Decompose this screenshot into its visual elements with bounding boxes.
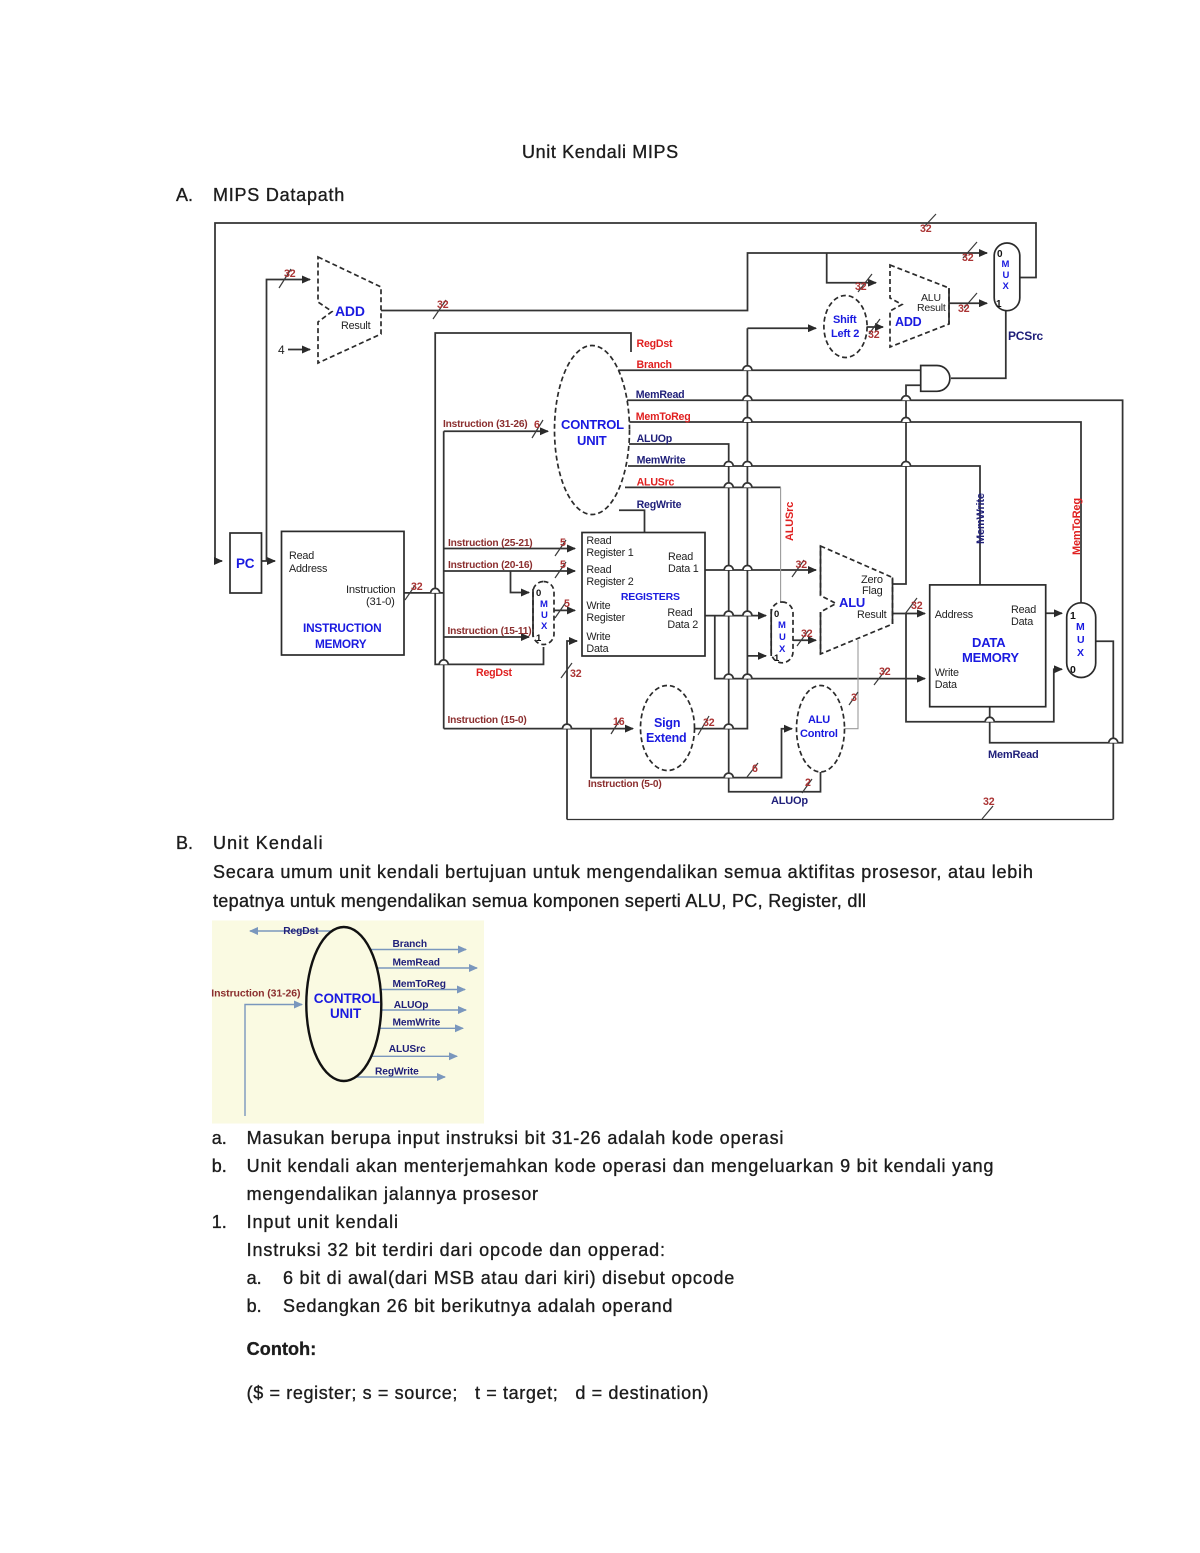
wire: instruction bus vertical	[443, 431, 445, 728]
svg-text:32: 32	[962, 252, 974, 264]
svg-text:4: 4	[278, 343, 285, 357]
figure background	[212, 921, 484, 1124]
final mux M4 (MemToReg)	[1067, 603, 1096, 678]
control unit ellipse	[555, 346, 630, 515]
wire: instruction 20-16 to read register 2	[444, 570, 575, 572]
wire: ALUSrc select down to mux	[780, 487, 782, 602]
svg-text:Result: Result	[341, 320, 371, 332]
svg-text:Instruction (15-11): Instruction (15-11)	[448, 626, 532, 637]
wire: RegDst control to write-register mux select	[435, 333, 631, 664]
wire: RegDst output left	[250, 930, 332, 932]
svg-text:0: 0	[1070, 664, 1076, 676]
svg-text:RegWrite: RegWrite	[637, 499, 682, 511]
svg-text:Instruction (5-0): Instruction (5-0)	[588, 779, 662, 790]
svg-text:Register 1: Register 1	[586, 547, 633, 559]
svg-text:ADD: ADD	[895, 315, 922, 329]
wire: RegWrite output	[356, 1076, 445, 1078]
wire: sign extend output up to shift-left-2	[694, 328, 747, 728]
wire: instruction 15-11 to mux input 1	[444, 636, 529, 638]
svg-text:ALUOp: ALUOp	[394, 1000, 429, 1011]
svg-text:5: 5	[564, 598, 570, 610]
MAIN DATAPATH SVG	[0, 0, 1200, 860]
svg-text:5: 5	[560, 559, 566, 571]
svg-text:X: X	[779, 644, 786, 655]
wire: MemWrite control to data memory top	[628, 466, 980, 585]
wire: instruction 5-0 to ALU control	[591, 729, 792, 778]
wire: instruction 20-16 branch to mux input 0	[511, 571, 530, 593]
svg-text:Read: Read	[586, 564, 611, 576]
svg-text:MemToReg: MemToReg	[393, 979, 446, 990]
wire: ALU result bypass to final mux input 0	[906, 614, 1062, 722]
ADD2 solid right edge	[948, 288, 950, 324]
svg-text:Register: Register	[586, 612, 625, 624]
svg-text:CONTROL: CONTROL	[314, 991, 380, 1006]
svg-text:Instruction (31-26): Instruction (31-26)	[211, 988, 300, 1000]
svg-text:6: 6	[534, 419, 540, 431]
svg-text:ALUOp: ALUOp	[637, 433, 673, 445]
svg-text:Address: Address	[289, 563, 328, 575]
svg-text:6: 6	[752, 763, 758, 775]
wire: instruction 31-26 input	[245, 1005, 302, 1117]
wire: ALUSrc control across	[625, 486, 781, 488]
svg-text:U: U	[779, 632, 786, 643]
svg-text:MemRead: MemRead	[636, 389, 685, 401]
heading A	[176, 185, 193, 206]
svg-text:Data 2: Data 2	[667, 619, 698, 631]
main ALU	[821, 546, 893, 654]
svg-text:Write: Write	[935, 667, 959, 679]
svg-text:DATA: DATA	[972, 635, 1006, 650]
svg-text:1: 1	[996, 299, 1002, 310]
svg-text:5: 5	[560, 537, 566, 549]
svg-text:Control: Control	[800, 728, 838, 740]
svg-text:Instruction: Instruction	[346, 584, 395, 596]
svg-text:RegDst: RegDst	[637, 338, 674, 350]
svg-text:32: 32	[868, 329, 880, 341]
svg-text:U: U	[1077, 634, 1084, 646]
svg-text:X: X	[541, 621, 548, 632]
wire: Branch output	[370, 949, 466, 951]
svg-text:32: 32	[411, 581, 423, 593]
svg-text:MemWrite: MemWrite	[975, 493, 987, 544]
wire: Zero flag to AND gate	[893, 385, 921, 584]
svg-text:MemToReg: MemToReg	[1071, 498, 1083, 555]
svg-text:Left 2: Left 2	[831, 328, 859, 340]
wire: final mux output feedback to registers write data	[1096, 641, 1114, 819]
write-register mux M2	[533, 582, 554, 645]
svg-text:Sign: Sign	[654, 716, 680, 730]
wire: constant 4 into ADD1	[288, 349, 310, 351]
svg-text:UNIT: UNIT	[577, 433, 607, 448]
svg-text:ALUSrc: ALUSrc	[784, 502, 796, 541]
slashes on buses	[279, 214, 993, 819]
svg-text:MemRead: MemRead	[393, 958, 440, 969]
svg-text:Branch: Branch	[393, 939, 428, 950]
wire: PC feedback from top mux along top frame into PC	[215, 223, 1036, 561]
mux solid left edges	[533, 589, 771, 656]
wire: MemWrite output	[379, 1027, 463, 1029]
svg-text:REGISTERS: REGISTERS	[621, 591, 680, 603]
svg-text:32: 32	[796, 559, 808, 571]
svg-text:Instruction (31-26): Instruction (31-26)	[443, 419, 528, 430]
wire: MemToReg control to final mux select	[629, 422, 1081, 603]
ALU solid edges	[821, 546, 893, 654]
svg-text:Write: Write	[586, 600, 610, 612]
svg-text:RegDst: RegDst	[476, 667, 513, 679]
wire: shift-left-2 output to ADD2	[867, 326, 883, 328]
svg-text:32: 32	[284, 268, 296, 280]
wire: PC to instruction memory	[262, 560, 276, 562]
wire: data memory read data to final mux input 1	[1046, 612, 1062, 614]
registers file	[582, 533, 705, 657]
wire: ALUOp control to ALU control unit	[629, 444, 821, 792]
crossing hops	[431, 366, 1118, 778]
svg-text:PCSrc: PCSrc	[1008, 329, 1044, 343]
wire: sign extend branch to ALUSrc mux input 1	[747, 655, 766, 657]
wire: Branch control to AND gate	[618, 369, 921, 371]
svg-text:ALU: ALU	[839, 595, 865, 610]
svg-text:Data: Data	[935, 679, 957, 691]
title	[522, 142, 679, 163]
adder ADD1 (PC+4)	[318, 257, 381, 363]
svg-text:X: X	[1003, 281, 1010, 292]
sign extend unit	[641, 686, 695, 771]
svg-text:UNIT: UNIT	[330, 1006, 362, 1021]
wire: ALUSrc mux output to ALU	[793, 639, 816, 641]
svg-text:M: M	[540, 599, 548, 610]
svg-text:32: 32	[958, 303, 970, 315]
wire: read data 1 to ALU	[705, 569, 816, 571]
svg-text:Instruction (25-21): Instruction (25-21)	[448, 538, 533, 549]
svg-text:Read: Read	[289, 550, 314, 562]
svg-text:MemWrite: MemWrite	[637, 455, 686, 467]
heading B	[176, 833, 193, 854]
svg-text:16: 16	[613, 716, 625, 728]
svg-text:Data: Data	[1011, 616, 1033, 628]
adder ADD2 (branch target)	[890, 265, 949, 347]
svg-text:MemWrite: MemWrite	[393, 1018, 441, 1029]
AND gate (branch and zero)	[921, 366, 950, 392]
svg-text:PC: PC	[236, 556, 255, 571]
PC register	[230, 533, 262, 593]
SMALL CONTROL UNIT FIGURE SVG	[0, 905, 520, 1135]
svg-text:2: 2	[805, 777, 811, 789]
svg-text:M: M	[778, 620, 786, 631]
svg-text:X: X	[1077, 647, 1084, 659]
svg-text:RegWrite: RegWrite	[375, 1067, 419, 1078]
svg-text:32: 32	[879, 666, 891, 678]
svg-text:Data 1: Data 1	[668, 563, 699, 575]
ALU control unit	[797, 686, 845, 772]
svg-text:Read: Read	[1011, 604, 1036, 616]
wire: MemRead output	[377, 967, 477, 969]
svg-text:32: 32	[911, 600, 923, 612]
svg-text:Data: Data	[586, 643, 608, 655]
wire: MemToReg output	[381, 989, 465, 991]
svg-text:U: U	[1003, 270, 1010, 281]
svg-text:Write: Write	[586, 631, 610, 643]
svg-text:Result: Result	[917, 302, 946, 314]
wire: PCSrc select from AND gate to top mux	[951, 311, 1006, 379]
svg-text:32: 32	[920, 223, 932, 235]
svg-text:Read: Read	[668, 551, 693, 563]
wire: ADD2 result to top mux input 1	[949, 302, 987, 304]
svg-text:ALUSrc: ALUSrc	[637, 477, 675, 489]
wire: ALU control output to ALU	[845, 640, 858, 729]
svg-text:M: M	[1002, 259, 1010, 270]
svg-text:M: M	[1076, 621, 1085, 633]
svg-text:32: 32	[983, 796, 995, 808]
wire: PC up to ADD1 input	[267, 280, 311, 562]
svg-text:32: 32	[437, 299, 449, 311]
wire: instruction memory output	[404, 592, 444, 594]
svg-text:32: 32	[855, 281, 867, 293]
svg-text:U: U	[541, 610, 548, 621]
svg-text:ALUSrc: ALUSrc	[389, 1044, 426, 1055]
svg-text:CONTROL: CONTROL	[561, 417, 624, 432]
svg-text:Read: Read	[586, 535, 611, 547]
wire: instruction 31-26 into control unit	[444, 430, 548, 432]
svg-text:(31-0): (31-0)	[366, 596, 395, 608]
wire: RegWrite control to registers top	[619, 510, 645, 532]
svg-text:MemToReg: MemToReg	[636, 411, 691, 423]
svg-text:3: 3	[851, 692, 857, 704]
wire: read data 2 branch to data memory write data	[715, 616, 925, 679]
top mux M1 (PCSrc)	[994, 243, 1020, 311]
wire: instruction 25-21 to read register 1	[444, 548, 575, 550]
svg-text:Register 2: Register 2	[586, 576, 633, 588]
svg-text:INSTRUCTION: INSTRUCTION	[303, 621, 381, 635]
svg-text:Branch: Branch	[637, 359, 672, 371]
wire: ALU result to data memory address	[893, 613, 926, 615]
wire: write-register mux output	[554, 609, 575, 611]
svg-text:Shift: Shift	[833, 314, 857, 326]
list items	[212, 1128, 227, 1149]
svg-text:Extend: Extend	[646, 731, 686, 745]
svg-text:ALUOp: ALUOp	[771, 795, 808, 807]
ALUSrc mux M3	[771, 602, 793, 663]
control unit ellipse small	[306, 927, 381, 1081]
svg-text:ALU: ALU	[808, 714, 830, 726]
svg-text:MEMORY: MEMORY	[315, 637, 367, 651]
svg-text:Address: Address	[935, 609, 974, 621]
svg-text:MEMORY: MEMORY	[962, 650, 1019, 665]
wire: shift-left-2 input	[747, 327, 816, 329]
svg-text:0: 0	[774, 609, 779, 620]
svg-text:32: 32	[801, 628, 813, 640]
shift left 2 unit	[824, 296, 867, 358]
svg-text:0: 0	[536, 588, 541, 599]
wire: ADD1 result (PC+4) to top mux input 0	[381, 253, 987, 311]
instruction memory	[282, 531, 405, 655]
wire: PC+4 branch down into ADD2	[827, 253, 876, 283]
svg-text:32: 32	[570, 668, 582, 680]
data memory	[930, 585, 1046, 707]
wire: ALUSrc output	[371, 1055, 457, 1057]
svg-text:Read: Read	[667, 607, 692, 619]
svg-text:RegDst: RegDst	[283, 926, 319, 937]
wire: instruction 15-0 to sign extend	[444, 728, 633, 730]
svg-text:Instruction (15-0): Instruction (15-0)	[448, 715, 527, 726]
svg-text:Instruction (20-16): Instruction (20-16)	[448, 560, 533, 571]
wire: read data 2 to ALUSrc mux input 0	[705, 615, 766, 617]
wire: MemRead control to data memory bottom	[627, 400, 1123, 743]
svg-text:ADD: ADD	[335, 303, 365, 319]
svg-text:32: 32	[703, 717, 715, 729]
wire: ALUOp output	[381, 1009, 466, 1011]
svg-text:Result: Result	[857, 609, 887, 621]
svg-text:MemRead: MemRead	[988, 749, 1039, 761]
